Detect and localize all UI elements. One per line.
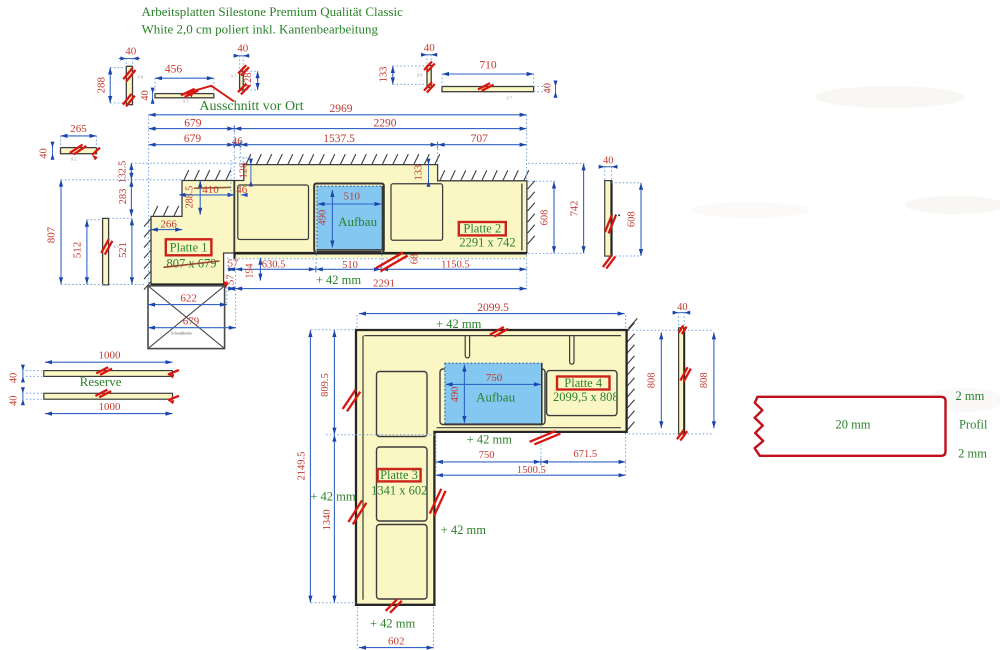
svg-text:+ 42 mm: + 42 mm (316, 273, 362, 287)
svg-text:57: 57 (228, 259, 239, 270)
svg-text:S 7: S 7 (507, 96, 512, 101)
svg-text:1341 x 602: 1341 x 602 (371, 483, 427, 497)
svg-text:602: 602 (388, 636, 405, 648)
svg-text:+ 42 mm: + 42 mm (436, 317, 482, 331)
svg-text:Schrankbreite: Schrankbreite (171, 331, 192, 335)
svg-text:808: 808 (647, 372, 658, 388)
svg-text:Aufbau: Aufbau (338, 214, 377, 229)
svg-text:2 mm: 2 mm (958, 447, 987, 461)
svg-text:40: 40 (677, 302, 688, 313)
svg-text:608: 608 (540, 210, 551, 226)
svg-text:Platte 2: Platte 2 (463, 221, 501, 235)
svg-text:808: 808 (699, 372, 710, 388)
svg-text:490: 490 (450, 387, 461, 403)
svg-text:410: 410 (202, 184, 219, 196)
svg-text:2149.5: 2149.5 (297, 452, 308, 481)
svg-text:White 2,0 cm poliert inkl. Kan: White 2,0 cm poliert inkl. Kantenbearbei… (142, 22, 379, 37)
svg-text:40: 40 (424, 42, 436, 54)
svg-text:750: 750 (486, 372, 503, 384)
svg-text:132.5: 132.5 (118, 161, 129, 184)
svg-text:S 5: S 5 (231, 74, 236, 79)
svg-text:128: 128 (239, 163, 250, 179)
svg-text:133: 133 (379, 67, 390, 83)
svg-text:1000: 1000 (99, 350, 122, 362)
svg-text:Profil: Profil (959, 417, 988, 431)
svg-text:1150.5: 1150.5 (441, 259, 470, 270)
svg-text:S 3: S 3 (183, 99, 188, 104)
svg-text:2291 x 742: 2291 x 742 (459, 235, 515, 249)
svg-text:133: 133 (414, 165, 425, 181)
svg-text:Reserve: Reserve (80, 374, 122, 389)
svg-text:1537.5: 1537.5 (323, 133, 355, 145)
svg-text:512: 512 (72, 242, 84, 259)
svg-text:679: 679 (184, 117, 202, 129)
svg-text:671.5: 671.5 (573, 449, 597, 460)
svg-text:710: 710 (479, 60, 497, 72)
svg-text:Arbeitsplatten Silestone Premi: Arbeitsplatten Silestone Premium Qualitä… (142, 4, 404, 19)
svg-text:288: 288 (96, 77, 108, 94)
svg-text:40: 40 (603, 156, 614, 167)
svg-text:Platte 4: Platte 4 (564, 376, 603, 390)
svg-text:1000: 1000 (99, 401, 122, 413)
svg-text:265: 265 (70, 123, 87, 135)
svg-text:707: 707 (471, 133, 489, 145)
svg-text:630.5: 630.5 (262, 259, 286, 270)
svg-text:40: 40 (237, 43, 249, 55)
svg-text:1340: 1340 (322, 509, 333, 530)
svg-text:2099,5 x 808: 2099,5 x 808 (553, 390, 619, 404)
svg-text:2969: 2969 (330, 103, 353, 115)
svg-text:S 6: S 6 (417, 73, 422, 78)
svg-text:40: 40 (543, 83, 554, 94)
svg-text:490: 490 (318, 210, 329, 226)
svg-text:+ 42 mm: + 42 mm (310, 489, 356, 503)
svg-text:807: 807 (46, 226, 58, 243)
svg-text:2290: 2290 (374, 117, 397, 129)
svg-text:+ 42 mm: + 42 mm (441, 523, 487, 537)
svg-text:Platte 1: Platte 1 (170, 240, 208, 254)
svg-text:40: 40 (9, 396, 20, 407)
svg-text:1500.5: 1500.5 (517, 465, 546, 476)
svg-text:Aufbau: Aufbau (476, 390, 515, 405)
svg-text:266: 266 (160, 218, 177, 230)
svg-text:Ausschnitt vor Ort: Ausschnitt vor Ort (199, 99, 303, 114)
svg-text:40: 40 (9, 373, 20, 384)
svg-text:+ 42 mm: + 42 mm (467, 432, 513, 446)
svg-text:2291: 2291 (373, 277, 395, 289)
svg-text:750: 750 (479, 450, 495, 461)
svg-text:679: 679 (184, 133, 202, 145)
svg-text:40: 40 (125, 46, 137, 58)
svg-text:521: 521 (118, 242, 129, 258)
svg-text:622: 622 (180, 293, 197, 305)
svg-text:809.5: 809.5 (320, 373, 331, 397)
svg-text:+ 42 mm: + 42 mm (370, 617, 416, 631)
svg-text:194: 194 (245, 264, 256, 279)
svg-text:S 2: S 2 (71, 157, 76, 162)
svg-text:679: 679 (183, 315, 200, 327)
svg-text:S 6: S 6 (138, 75, 143, 80)
svg-text:2099.5: 2099.5 (477, 302, 509, 314)
svg-text:2 mm: 2 mm (955, 389, 984, 403)
svg-text:40: 40 (140, 90, 151, 101)
svg-text:608: 608 (627, 211, 638, 227)
svg-text:742: 742 (569, 201, 580, 217)
svg-text:510: 510 (344, 191, 361, 203)
svg-text:S 1: S 1 (114, 244, 119, 249)
svg-text:288.5: 288.5 (185, 186, 196, 209)
svg-text:456: 456 (165, 64, 183, 76)
svg-text:283: 283 (118, 189, 129, 205)
svg-text:40: 40 (39, 148, 50, 159)
svg-text:46: 46 (232, 136, 244, 148)
svg-text:20 mm: 20 mm (835, 417, 870, 431)
svg-text:Platte 3: Platte 3 (380, 468, 418, 482)
svg-text:68: 68 (410, 254, 421, 265)
svg-text:510: 510 (342, 260, 358, 271)
